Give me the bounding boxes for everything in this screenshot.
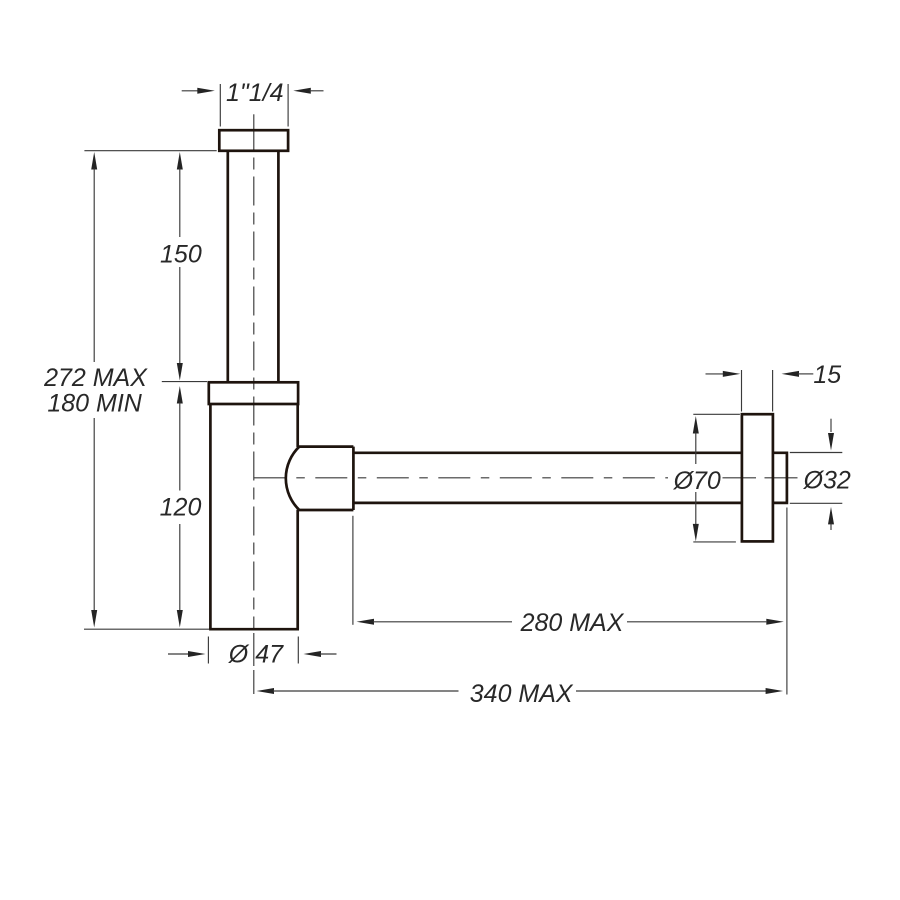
dim diam70 line upper xyxy=(695,433,697,465)
body right edge upper xyxy=(296,404,299,447)
wall flange xyxy=(742,414,773,541)
dim diam47 left arrow line xyxy=(168,653,189,655)
dim 340 max right arrowhead xyxy=(766,688,784,694)
dim 280 max right extension line xyxy=(786,508,788,695)
dim diam32 top arrowhead xyxy=(828,433,834,451)
dim 1"1/4 right arrow line xyxy=(310,90,324,92)
dim 340 max left arrowhead xyxy=(257,688,275,694)
extension line top (272 max / 150) xyxy=(84,150,216,152)
dim 280 max line left xyxy=(373,621,512,623)
dim 280 max left extension line xyxy=(352,516,354,625)
centerline vertical tick above inlet flange xyxy=(253,114,255,150)
dim diam47 left arrowhead xyxy=(188,651,206,657)
dim diam70 bottom extension line xyxy=(693,541,736,543)
svg-text:Ø32: Ø32 xyxy=(803,466,851,494)
dim diam47 right arrowhead xyxy=(304,651,322,657)
inlet pipe left edge xyxy=(226,151,229,382)
svg-text:340 MAX: 340 MAX xyxy=(470,680,574,708)
dim 272 max lower arrowhead xyxy=(91,610,97,628)
dim diam70 line lower xyxy=(695,492,697,525)
svg-text:150: 150 xyxy=(160,241,202,269)
dim 280 max left arrowhead xyxy=(357,619,375,625)
dim diam32 top extension line xyxy=(790,452,843,454)
dim 280 max line right xyxy=(627,621,766,623)
centerline dash above 340 max line xyxy=(253,670,255,694)
dim 150 lower arrowhead xyxy=(177,363,183,381)
svg-text:272 MAX: 272 MAX xyxy=(43,364,148,392)
dim diam70 lower arrowhead xyxy=(693,524,699,542)
centerline horizontal dash left of diam32 label xyxy=(765,477,798,479)
svg-text:180 MIN: 180 MIN xyxy=(47,390,142,418)
dim 15 left extension line xyxy=(741,370,743,412)
dim 15 left arrow line xyxy=(706,373,724,375)
svg-text:Ø 47: Ø 47 xyxy=(228,641,284,669)
inlet top flange xyxy=(219,130,288,151)
dim 120 upper arrowhead xyxy=(177,386,183,404)
dim 150 line lower xyxy=(179,267,181,364)
dim 340 max line right xyxy=(576,690,766,692)
centerline vertical (trap body axis) xyxy=(253,158,255,629)
dim 150 upper arrowhead xyxy=(177,152,183,170)
dim 1"1/4 right arrowhead xyxy=(293,88,311,94)
outlet pipe bottom edge xyxy=(353,502,742,505)
dim diam32 bottom arrowhead xyxy=(828,507,834,525)
dim 15 left arrowhead xyxy=(723,371,741,377)
inlet pipe right edge xyxy=(277,151,280,382)
dim 1"1/4 left extension line xyxy=(219,84,221,127)
dim 1"1/4 left arrow line xyxy=(182,90,199,92)
dim 15 right arrow line xyxy=(798,373,813,375)
outlet pipe top edge xyxy=(353,451,742,454)
dim 272 max line lower xyxy=(93,418,95,612)
dim 120 lower arrowhead xyxy=(177,610,183,628)
outlet nut right edge xyxy=(352,447,355,510)
body left edge xyxy=(209,404,212,629)
body top flange xyxy=(209,382,298,404)
extension line at body flange top (150 / 120) xyxy=(162,381,207,383)
svg-text:280 MAX: 280 MAX xyxy=(520,609,625,637)
dim 15 right extension line xyxy=(772,370,774,412)
svg-text:1"1/4: 1"1/4 xyxy=(226,79,284,107)
dim 1"1/4 left arrowhead xyxy=(197,88,215,94)
dim 120 line lower xyxy=(179,524,181,612)
dim diam70 upper arrowhead xyxy=(693,416,699,434)
body right edge lower xyxy=(296,510,299,629)
dim diam70 top extension line xyxy=(693,413,740,415)
dim 280 max right arrowhead xyxy=(766,619,784,625)
dim 1"1/4 right extension line xyxy=(287,84,289,127)
centerline dash through diam47 label xyxy=(253,633,255,666)
outlet nut (bump) xyxy=(286,447,354,510)
svg-text:15: 15 xyxy=(813,361,841,389)
extension line bottom (272 max / 120) xyxy=(84,628,209,630)
centerline horizontal dash right of diam70 label xyxy=(723,477,757,479)
dim 272 max upper arrowhead xyxy=(91,152,97,170)
dim diam47 right extension line xyxy=(297,637,299,664)
centerline horizontal (outlet pipe axis), left part xyxy=(254,477,668,479)
dim diam47 left extension line xyxy=(207,637,209,664)
svg-text:120: 120 xyxy=(160,494,202,522)
body bottom edge xyxy=(209,628,299,631)
dim 15 right arrowhead xyxy=(782,371,800,377)
dim 120 line upper xyxy=(179,403,181,491)
dim diam32 top arrow line xyxy=(830,419,832,432)
svg-text:Ø70: Ø70 xyxy=(673,467,721,495)
dim 272 max line upper xyxy=(93,169,95,363)
dim diam32 bottom arrow line xyxy=(830,523,832,530)
wall stub xyxy=(773,453,787,503)
dim diam47 right arrow line xyxy=(320,653,337,655)
dim 150 line upper xyxy=(179,169,181,238)
dim diam32 bottom extension line xyxy=(790,502,843,504)
dim 340 max line left xyxy=(273,690,459,692)
